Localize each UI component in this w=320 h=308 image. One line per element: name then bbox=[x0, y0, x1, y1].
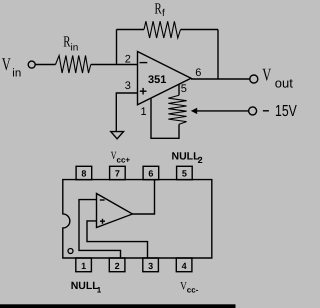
svg-text:in: in bbox=[71, 43, 79, 54]
wire pin6 to output bbox=[133, 180, 155, 214]
svg-text:15V: 15V bbox=[275, 103, 297, 120]
svg-text:2: 2 bbox=[198, 155, 203, 165]
svg-text:f: f bbox=[162, 8, 165, 19]
wire pin3 to non-inverting input bbox=[87, 221, 148, 258]
pin 8 box bbox=[76, 166, 92, 179]
wire junction to Rf bbox=[117, 29, 145, 31]
terminal -15V bbox=[249, 107, 257, 115]
pin 2 box bbox=[109, 258, 125, 272]
potentiometer wiper arrow wire bbox=[196, 110, 249, 112]
terminal Vin bbox=[28, 61, 35, 68]
wire Vin to Rin bbox=[35, 64, 55, 66]
op-amp inverting input marker bbox=[140, 62, 148, 64]
svg-text:cc-: cc- bbox=[187, 285, 199, 294]
wire pin5 stub bbox=[178, 84, 180, 95]
svg-text:V: V bbox=[262, 65, 271, 85]
svg-text:out: out bbox=[275, 76, 293, 91]
svg-text:1: 1 bbox=[141, 106, 147, 118]
svg-text:8: 8 bbox=[81, 168, 86, 178]
op-amp U2 internal bbox=[97, 194, 133, 228]
svg-text:2: 2 bbox=[125, 53, 131, 65]
svg-text:351: 351 bbox=[148, 74, 166, 86]
svg-text:V: V bbox=[2, 54, 11, 74]
svg-text:cc+: cc+ bbox=[117, 155, 131, 164]
svg-text:1: 1 bbox=[97, 285, 102, 294]
svg-text:R: R bbox=[155, 0, 163, 17]
pin 1 marker dot bbox=[68, 249, 73, 254]
wire Rin to pin2 of op-amp bbox=[91, 64, 138, 66]
node feedback junction / wire riser bbox=[116, 30, 118, 65]
potentiometer wiper arrowhead bbox=[191, 108, 197, 114]
resistor Rf bbox=[144, 21, 181, 38]
op-amp non-inverting input marker bbox=[140, 90, 147, 92]
pin 4 box bbox=[176, 258, 192, 272]
svg-text:6: 6 bbox=[195, 67, 201, 79]
potentiometer offset null bbox=[168, 95, 186, 124]
pin 6 box bbox=[143, 166, 159, 179]
pin 7 box bbox=[110, 166, 126, 179]
svg-text:3: 3 bbox=[148, 261, 153, 271]
svg-text:5: 5 bbox=[181, 83, 187, 95]
U2 non-inverting input marker bbox=[100, 220, 105, 222]
wire feedback drop to output bbox=[217, 30, 219, 80]
svg-text:3: 3 bbox=[125, 80, 131, 92]
svg-text:NULL: NULL bbox=[172, 151, 201, 163]
wire pin2 to inverting input bbox=[79, 200, 121, 258]
svg-text:1: 1 bbox=[81, 261, 86, 271]
wire output bbox=[191, 78, 250, 80]
svg-text:4: 4 bbox=[182, 261, 187, 271]
wire pin3 to ground bbox=[116, 93, 137, 131]
pin 5 box bbox=[177, 166, 193, 179]
svg-text:7: 7 bbox=[115, 168, 120, 178]
op-amp U1 351 bbox=[138, 52, 192, 105]
svg-text:in: in bbox=[12, 68, 21, 80]
horizontal rule bbox=[0, 304, 236, 308]
svg-text:NULL: NULL bbox=[71, 280, 100, 292]
wire Rf to feedback drop bbox=[181, 29, 219, 31]
svg-text:2: 2 bbox=[115, 261, 120, 271]
IC package DIP-8 body with notch bbox=[63, 180, 212, 258]
U2 inverting input marker bbox=[100, 199, 105, 201]
svg-text:5: 5 bbox=[182, 168, 187, 178]
ground bbox=[111, 132, 124, 139]
svg-text:6: 6 bbox=[148, 168, 153, 178]
minus sign of -15V bbox=[263, 110, 269, 112]
pin 1 box bbox=[76, 258, 92, 272]
pin 3 box bbox=[143, 258, 159, 272]
wire pot bottom to pin1 bbox=[151, 98, 179, 138]
terminal Vout bbox=[250, 75, 258, 83]
resistor Rin bbox=[56, 56, 91, 74]
